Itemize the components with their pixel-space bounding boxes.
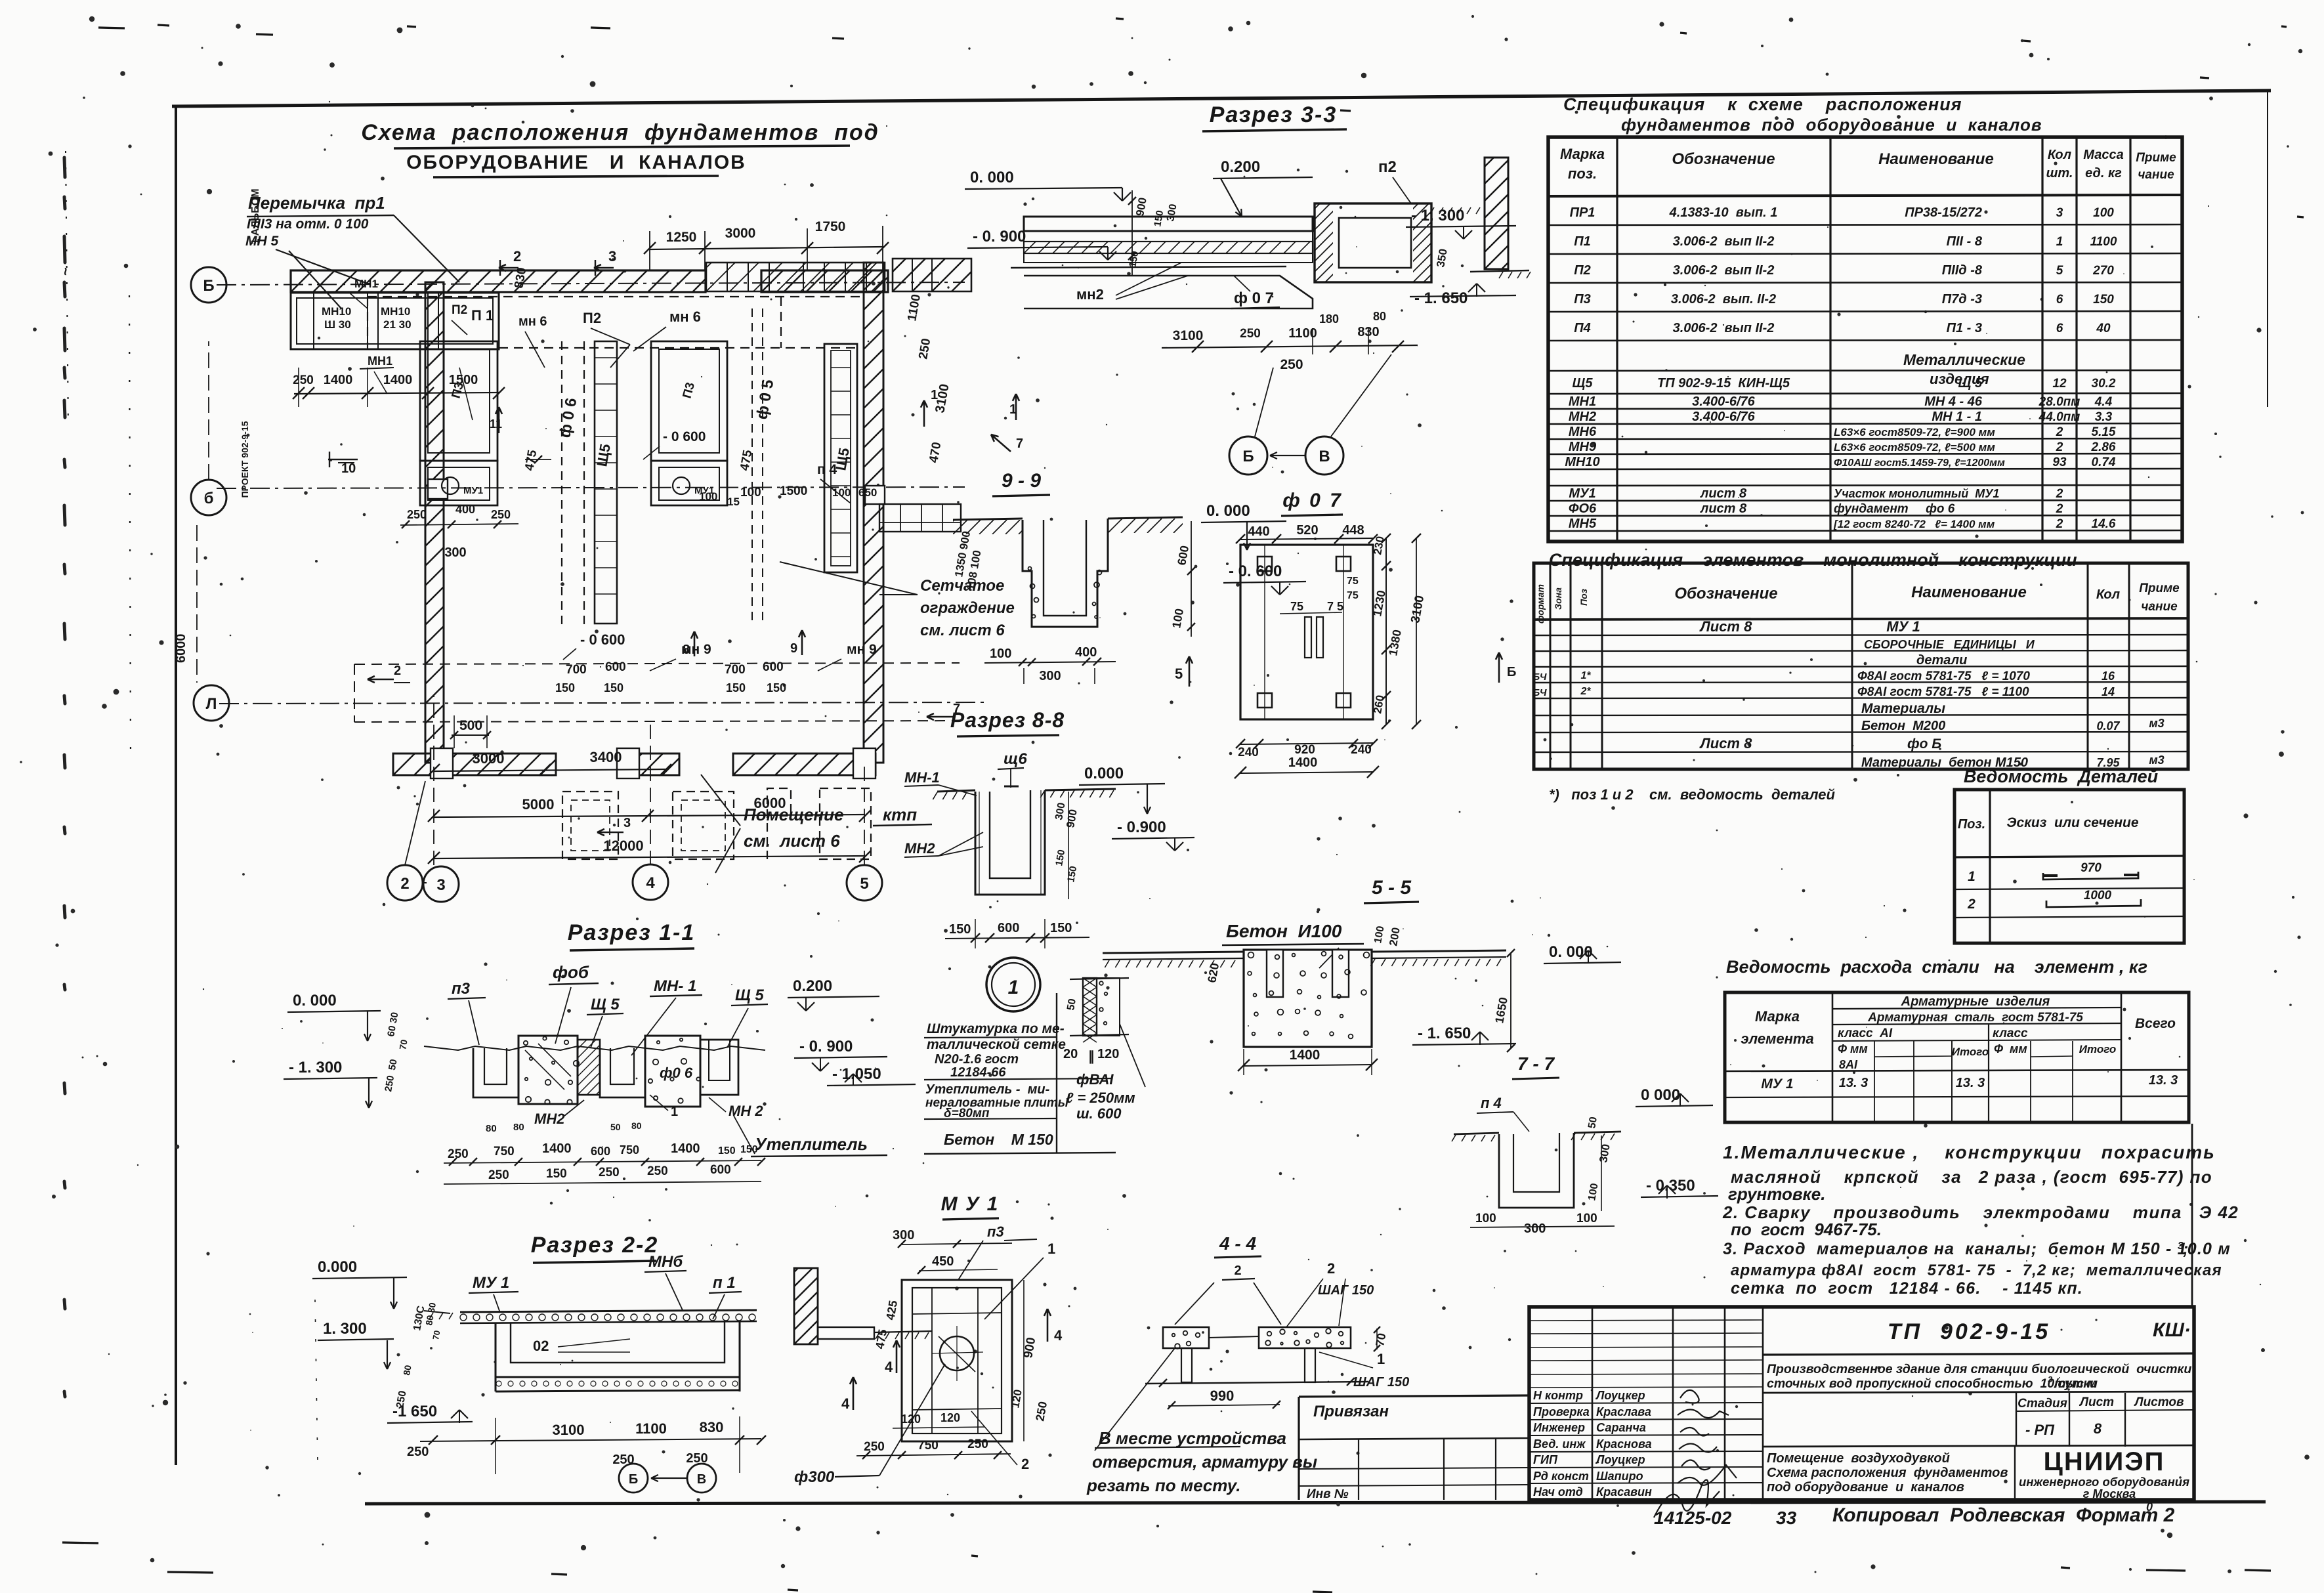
svg-text:1400: 1400 <box>324 373 353 387</box>
svg-text:Приме: Приме <box>2136 151 2176 165</box>
svg-text:МН 1 - 1: МН 1 - 1 <box>1932 410 1982 424</box>
svg-text:2: 2 <box>513 248 521 265</box>
svg-text:750: 750 <box>918 1439 939 1453</box>
plan: axis FO5 dashed channel <box>752 308 778 624</box>
svg-text:16: 16 <box>2102 669 2115 683</box>
svg-text:700: 700 <box>566 663 587 677</box>
title block subject and org <box>1767 1447 2189 1500</box>
svg-text:СБОРОЧНЫЕ ЕДИНИЦЫ И: СБОРОЧНЫЕ ЕДИНИЦЫ И <box>1864 638 2035 651</box>
svg-text:- 0 600: - 0 600 <box>663 429 706 444</box>
svg-text:0.07: 0.07 <box>2096 719 2120 733</box>
svg-text:0.000: 0.000 <box>1084 765 1124 782</box>
svg-text:250: 250 <box>491 508 511 521</box>
svg-text:ПIIд -8: ПIIд -8 <box>1942 263 1983 278</box>
svg-text:п2: п2 <box>1378 158 1397 176</box>
monolith spec table grid <box>1534 563 2188 769</box>
plate F07 bottom dims 240 920 240 1400 <box>1235 739 1379 778</box>
svg-text:3.400-6/76: 3.400-6/76 <box>1692 410 1756 424</box>
svg-text:600: 600 <box>710 1163 731 1177</box>
svg-text:250: 250 <box>916 337 933 360</box>
svg-text:класс АI: класс АI <box>1838 1027 1893 1040</box>
svg-text:Краснова: Краснова <box>1596 1437 1652 1451</box>
svg-text:3.3: 3.3 <box>2095 410 2113 424</box>
svg-text:1: 1 <box>1377 1351 1385 1367</box>
svg-text:ф 0 7: ф 0 7 <box>1234 289 1274 307</box>
svg-text:L63×6 гост8509-72, ℓ=900 мм: L63×6 гост8509-72, ℓ=900 мм <box>1834 426 1995 438</box>
svg-text:2: 2 <box>1234 1264 1241 1278</box>
svg-text:900: 900 <box>1133 196 1149 217</box>
svg-text:Ф мм: Ф мм <box>1994 1042 2027 1055</box>
specification table header text <box>1560 146 2176 182</box>
plan: axis circle L <box>174 525 229 721</box>
svg-text:9 - 9: 9 - 9 <box>1002 470 1041 492</box>
svg-text:30.2: 30.2 <box>2092 377 2116 391</box>
plan: lower long dashed lines <box>354 663 960 722</box>
detail fv8 labels <box>1063 1047 1135 1122</box>
plan: P3 box left with MU1 <box>420 341 497 505</box>
plan: dim 1250 3000 1750 top <box>644 219 889 270</box>
svg-text:1400: 1400 <box>1290 1048 1320 1063</box>
svg-text:П3: П3 <box>1574 292 1591 307</box>
svg-text:3000: 3000 <box>725 226 756 241</box>
svg-text:б: б <box>204 490 214 507</box>
section 8-8 levels right <box>1079 765 1194 851</box>
svg-text:Лоуцкер: Лоуцкер <box>1595 1453 1645 1466</box>
plate F07 top dims 440 520 448 <box>1236 523 1378 543</box>
svg-text:- 1. 650: - 1. 650 <box>1418 1025 1471 1042</box>
svg-text:300: 300 <box>1039 669 1061 683</box>
svg-text:щ6: щ6 <box>1004 750 1027 768</box>
notes text block <box>1722 1124 2239 1307</box>
plan: axis circle V <box>191 267 226 303</box>
svg-text:8: 8 <box>2094 1420 2102 1437</box>
svg-text:50: 50 <box>610 1122 621 1132</box>
section 5-5 bottom dim 1400 <box>1238 1048 1378 1075</box>
svg-text:6000: 6000 <box>754 795 786 811</box>
svg-text:фоб: фоб <box>553 962 589 982</box>
svg-text:см. лист 6: см. лист 6 <box>744 831 840 851</box>
section 1-1 foundation blocks <box>473 1036 738 1107</box>
svg-text:Участок монолитный МУ1: Участок монолитный МУ1 <box>1834 487 1999 500</box>
handwritten bottom notes <box>1654 1500 2175 1528</box>
main title line 2 <box>406 152 746 177</box>
svg-text:100: 100 <box>1576 1212 1597 1225</box>
svg-text:02: 02 <box>533 1338 549 1354</box>
svg-text:арматура ф8АI гост 5781- 75: арматура ф8АI гост 5781- 75 - 7,2 кг; ме… <box>1731 1262 2222 1279</box>
svg-text:1400: 1400 <box>671 1141 700 1156</box>
svg-text:Спецификация элементов м: Спецификация элементов монолитной констр… <box>1549 550 2077 570</box>
svg-text:1500: 1500 <box>780 484 807 498</box>
plan: MN1 small labels <box>348 278 394 394</box>
plan: dim row 5000 6000 <box>428 795 871 822</box>
svg-text:Обозначение: Обозначение <box>1674 585 1777 603</box>
svg-text:3: 3 <box>623 816 631 830</box>
svg-text:Схема расположения фундамент: Схема расположения фундаментов под <box>361 120 879 145</box>
section 8-8 vertical dims <box>1053 792 1080 899</box>
svg-text:МН2: МН2 <box>534 1111 565 1127</box>
svg-text:ПII - 8: ПII - 8 <box>1947 234 1983 249</box>
svg-text:300: 300 <box>444 545 466 560</box>
svg-text:2: 2 <box>2056 517 2063 531</box>
svg-text:1100: 1100 <box>1288 326 1317 341</box>
svg-text:Б: Б <box>1507 665 1516 679</box>
svg-text:1100: 1100 <box>635 1420 667 1437</box>
svg-text:3100: 3100 <box>553 1422 585 1438</box>
svg-text:250: 250 <box>864 1440 885 1454</box>
plan: dims 475 levels inside <box>400 429 755 560</box>
svg-text:600: 600 <box>591 1145 610 1158</box>
svg-text:0.74: 0.74 <box>2092 456 2116 469</box>
section 2-2 lower dims <box>387 1403 766 1474</box>
section 2-2 title <box>531 1233 659 1263</box>
svg-text:600: 600 <box>998 921 1019 935</box>
svg-text:Разрез 1-1: Разрез 1-1 <box>568 920 696 945</box>
svg-text:Металлические: Металлические <box>1903 351 2025 368</box>
svg-text:150: 150 <box>767 681 786 694</box>
svg-text:1: 1 <box>1968 869 1975 884</box>
svg-text:Красавин: Красавин <box>1596 1485 1652 1498</box>
svg-text:Стадия: Стадия <box>2018 1397 2067 1411</box>
section 2-2 channel drawing <box>424 1310 757 1391</box>
svg-text:6: 6 <box>2056 322 2063 335</box>
svg-text:10: 10 <box>341 461 356 476</box>
svg-text:Проверка: Проверка <box>1533 1405 1590 1418</box>
svg-text:80 30: 80 30 <box>423 1302 438 1326</box>
svg-text:2: 2 <box>2056 425 2063 439</box>
plan: lower dashed foundation squares <box>562 788 871 859</box>
svg-text:Разрез 8-8: Разрез 8-8 <box>950 708 1065 732</box>
svg-text:300: 300 <box>1165 203 1179 222</box>
svg-text:ПР1: ПР1 <box>1570 205 1595 220</box>
svg-text:21 30: 21 30 <box>383 318 412 331</box>
svg-text:8АI: 8АI <box>1839 1058 1858 1071</box>
svg-text:100: 100 <box>990 647 1011 661</box>
section 3-3 level 0.000 <box>965 169 1131 201</box>
svg-text:Итого: Итого <box>1952 1046 1989 1058</box>
svg-text:Схема расположения фундаменто: Схема расположения фундаментов <box>1767 1466 2008 1480</box>
section 1-1 right levels <box>788 977 916 1086</box>
svg-text:0 000: 0 000 <box>1641 1086 1680 1104</box>
svg-text:120: 120 <box>1097 1047 1119 1061</box>
svg-text:мн2: мн2 <box>1076 286 1104 303</box>
svg-text:лист 8: лист 8 <box>1700 486 1747 501</box>
svg-text:600: 600 <box>1175 545 1191 566</box>
svg-text:~: ~ <box>57 267 74 276</box>
plate F07 rectangle <box>1240 545 1373 719</box>
plan: room note pomeschenie ktp <box>669 775 932 880</box>
svg-text:Поз.: Поз. <box>1958 817 1985 832</box>
svg-text:- 0. 900: - 0. 900 <box>799 1038 853 1055</box>
svg-text:150: 150 <box>949 922 971 937</box>
main title line 1 <box>361 120 879 148</box>
plan: top wall band hatched <box>268 270 917 292</box>
svg-text:5 - 5: 5 - 5 <box>1372 877 1412 899</box>
svg-text:6000: 6000 <box>174 634 188 664</box>
svg-text:120: 120 <box>940 1411 960 1424</box>
svg-text:Марка: Марка <box>1755 1008 1800 1025</box>
svg-text:под оборудование и каналов: под оборудование и каналов <box>1767 1480 1964 1495</box>
svg-text:ограждение: ограждение <box>920 599 1015 617</box>
detail MU1 side dims <box>841 1280 1063 1441</box>
svg-text:МН5: МН5 <box>1569 517 1597 531</box>
svg-text:250: 250 <box>407 1445 429 1459</box>
svg-text:Перемычка пр1: Перемычка пр1 <box>248 193 385 213</box>
svg-text:МН 4 - 46: МН 4 - 46 <box>1924 394 1983 409</box>
left margin vertical text 1 albom <box>57 151 318 1464</box>
svg-text:МН2: МН2 <box>1569 410 1596 424</box>
section 3-3 label f07 <box>1231 276 1280 308</box>
svg-text:500: 500 <box>459 718 482 733</box>
svg-text:ТП 902-9-15 КИН-Щ5: ТП 902-9-15 КИН-Щ5 <box>1657 376 1790 391</box>
svg-text:МН- 1: МН- 1 <box>654 977 696 995</box>
svg-text:3000: 3000 <box>473 750 505 767</box>
svg-text:грунтовке.: грунтовке. <box>1728 1184 1825 1204</box>
monolith spec table rows <box>1532 618 2164 770</box>
svg-text:260: 260 <box>1371 694 1387 714</box>
vedomost detaley table <box>1954 790 2184 943</box>
svg-text:250: 250 <box>1240 327 1261 341</box>
svg-text:п 4: п 4 <box>1481 1095 1502 1111</box>
svg-text:мн 9: мн 9 <box>681 642 711 657</box>
svg-text:Сетчатое: Сетчатое <box>920 577 1004 595</box>
svg-text:МНб: МНб <box>648 1253 683 1271</box>
section 1-1 left levels <box>284 992 410 1108</box>
plan: top-right cells row MN <box>659 259 1024 291</box>
section 3-3 vertical dims 900 150 300 <box>1127 190 1179 276</box>
svg-text:детали: детали <box>1916 653 1967 668</box>
svg-text:м3: м3 <box>2149 754 2164 767</box>
svg-text:350: 350 <box>1434 247 1450 268</box>
svg-text:4.1383-10 вып. 1: 4.1383-10 вып. 1 <box>1669 205 1778 220</box>
svg-text:- РП: - РП <box>2025 1422 2055 1438</box>
svg-text:250: 250 <box>647 1164 668 1178</box>
svg-text:- 1.050: - 1.050 <box>832 1065 881 1083</box>
svg-text:МН9: МН9 <box>1569 440 1597 454</box>
svg-text:М У 1: М У 1 <box>941 1193 1000 1215</box>
svg-text:∥: ∥ <box>1088 1050 1095 1064</box>
svg-text:Утеплитель: Утеплитель <box>755 1134 868 1154</box>
svg-text:Зона: Зона <box>1553 587 1563 610</box>
svg-text:9: 9 <box>790 641 797 656</box>
section 1-1 ground line <box>424 1046 765 1050</box>
plan: dim row 12000 <box>428 838 871 864</box>
svg-text:93: 93 <box>2052 456 2067 469</box>
svg-text:Н контр: Н контр <box>1533 1389 1583 1402</box>
svg-text:100: 100 <box>2093 206 2114 220</box>
section 1-1 dim rows <box>444 1120 765 1184</box>
svg-text:Утеплитель - ми-: Утеплитель - ми- <box>925 1082 1050 1097</box>
svg-text:2: 2 <box>400 875 409 893</box>
svg-text:Нач отд: Нач отд <box>1533 1485 1583 1498</box>
svg-text:1100: 1100 <box>905 293 923 322</box>
svg-text:N20-1.6 гост: N20-1.6 гост <box>935 1052 1019 1067</box>
svg-text:ктп: ктп <box>883 805 917 824</box>
section 8-8 channel drawing <box>933 786 1116 895</box>
svg-text:300: 300 <box>893 1228 914 1243</box>
svg-text:резать по месту.: резать по месту. <box>1086 1476 1240 1495</box>
svg-text:П2: П2 <box>1574 263 1591 278</box>
svg-text:750: 750 <box>494 1145 515 1158</box>
svg-text:фундамент фо 6: фундамент фо 6 <box>1834 502 1955 516</box>
svg-text:620: 620 <box>1205 962 1221 984</box>
svg-text:600: 600 <box>605 660 626 674</box>
svg-text:2: 2 <box>2056 502 2063 516</box>
svg-text:Эскиз или сечение: Эскиз или сечение <box>2006 815 2138 830</box>
plan: fence note setchatoe <box>780 562 1015 639</box>
svg-text:Копировал Родлевская Формат: Копировал Родлевская Формат 2 <box>1832 1504 2175 1526</box>
svg-text:150: 150 <box>726 681 746 694</box>
svg-text:ШАГ 150: ШАГ 150 <box>1318 1283 1374 1298</box>
svg-text:мн 6: мн 6 <box>518 314 547 329</box>
svg-text:ЦНИИЭП: ЦНИИЭП <box>2044 1447 2165 1476</box>
svg-text:Бетон М200: Бетон М200 <box>1861 719 1945 733</box>
svg-text:П2: П2 <box>583 310 601 326</box>
svg-text:470: 470 <box>927 441 944 464</box>
svg-text:150: 150 <box>1152 209 1166 228</box>
svg-text:1*: 1* <box>1580 670 1591 681</box>
svg-text:П1 - 3: П1 - 3 <box>1947 321 1982 335</box>
svg-text:Щ 5: Щ 5 <box>735 987 764 1004</box>
title block left attachment part <box>1299 1395 1529 1501</box>
svg-text:Кол: Кол <box>2096 587 2121 602</box>
svg-text:ТП 902-9-15: ТП 902-9-15 <box>1888 1319 2050 1344</box>
svg-text:14.6: 14.6 <box>2092 517 2116 531</box>
svg-text:Рд конст: Рд конст <box>1533 1470 1589 1483</box>
svg-text:1400: 1400 <box>1288 755 1318 770</box>
svg-text:чание: чание <box>2138 168 2174 182</box>
section 7-7 dims <box>1470 1086 1718 1236</box>
detail 4-4 note text <box>1086 1348 1317 1495</box>
plan: dim row 250 1400 1400 1500 <box>293 368 505 407</box>
svg-text:100: 100 <box>1372 925 1386 944</box>
svg-text:1. 300: 1. 300 <box>323 1320 367 1338</box>
svg-text:Итого: Итого <box>2079 1043 2117 1055</box>
section 3-3 channel box <box>1231 203 1513 282</box>
svg-text:600: 600 <box>763 660 784 674</box>
plan: note perimychka pr1 <box>245 193 459 308</box>
svg-text:1000: 1000 <box>2084 889 2112 903</box>
svg-text:чание: чание <box>2141 600 2178 614</box>
svg-text:13. 3: 13. 3 <box>2149 1073 2178 1088</box>
plan: upper-left cell block MN10 <box>291 293 499 349</box>
svg-text:3. Расход материалов на кана: 3. Расход материалов на каналы; бетон М … <box>1723 1240 2231 1258</box>
svg-text:7 5: 7 5 <box>1327 600 1343 613</box>
svg-text:ℓ = 250мм: ℓ = 250мм <box>1066 1090 1135 1106</box>
svg-text:отверстия, арматуру вы: отверстия, арматуру вы <box>1092 1452 1317 1472</box>
svg-text:70: 70 <box>431 1330 442 1341</box>
svg-text:П7д -3: П7д -3 <box>1942 292 1982 307</box>
section 3-3 level -0.900 <box>967 228 1116 260</box>
svg-text:Ф8АI гост 5781-75 ℓ = 1070: Ф8АI гост 5781-75 ℓ = 1070 <box>1857 669 2030 683</box>
plan: tall Sch5 channel right <box>824 344 857 572</box>
svg-text:6: 6 <box>2056 293 2063 307</box>
svg-text:ПР38-15/272: ПР38-15/272 <box>1905 205 1982 220</box>
svg-text:900: 900 <box>1064 808 1080 828</box>
svg-text:Инженер: Инженер <box>1533 1421 1585 1434</box>
svg-text:Арматурная сталь гост 5781-7: Арматурная сталь гост 5781-75 <box>1867 1011 2083 1025</box>
svg-text:1: 1 <box>1047 1241 1055 1257</box>
svg-text:- 1. 300: - 1. 300 <box>289 1059 342 1076</box>
svg-text:425: 425 <box>883 1300 900 1321</box>
svg-text:15: 15 <box>727 496 740 508</box>
svg-text:;: ; <box>2183 1240 2188 1258</box>
svg-text:МН6: МН6 <box>1569 425 1597 439</box>
svg-text:Разрез 3-3: Разрез 3-3 <box>1210 102 1338 127</box>
svg-text:- 0.350: - 0.350 <box>1646 1177 1695 1195</box>
svg-text:МН 5: МН 5 <box>245 234 278 249</box>
svg-text:3: 3 <box>2048 1374 2053 1384</box>
detail MU1 f300 and bottom dims <box>794 1364 1029 1486</box>
svg-text:МН10: МН10 <box>322 305 351 318</box>
svg-text:1: 1 <box>1008 977 1019 998</box>
plate F07 mid dims 75 <box>1280 576 1359 614</box>
svg-text:830: 830 <box>700 1419 724 1435</box>
svg-text:80: 80 <box>513 1122 524 1133</box>
svg-text:МН2: МН2 <box>904 840 935 857</box>
svg-text:Всего: Всего <box>2135 1016 2176 1031</box>
svg-text:ГИП: ГИП <box>1533 1453 1558 1466</box>
detail wall layers <box>1065 978 1145 1087</box>
svg-text:В месте устройства: В месте устройства <box>1099 1428 1286 1448</box>
title block outer <box>1529 1307 2194 1500</box>
svg-text:11: 11 <box>490 417 502 431</box>
plan: channel Sch5 left <box>593 341 617 624</box>
svg-text:фо Б: фо Б <box>1907 736 1941 752</box>
svg-text:Саранча: Саранча <box>1596 1421 1646 1434</box>
svg-text:80: 80 <box>631 1120 642 1131</box>
svg-text:Щ 5: Щ 5 <box>591 996 620 1013</box>
section 9-9 trench drawing <box>927 517 1201 627</box>
svg-text:Обозначение: Обозначение <box>1672 150 1775 168</box>
plan: axis circle B <box>191 341 226 515</box>
section 8-8 bottom dims <box>945 919 1089 948</box>
svg-text:МУ1: МУ1 <box>1569 486 1595 501</box>
svg-text:250: 250 <box>967 1437 988 1451</box>
svg-text:МУ1: МУ1 <box>463 485 483 496</box>
svg-text:МУ 1: МУ 1 <box>1886 618 1920 635</box>
svg-text:Шапиро: Шапиро <box>1596 1470 1643 1483</box>
svg-text:0. 000: 0. 000 <box>970 169 1014 186</box>
svg-text:лист 8: лист 8 <box>1700 501 1747 516</box>
section 9-9 bottom dims <box>984 645 1116 684</box>
section 5-5 beton note <box>1222 921 1364 968</box>
section 1-1 labels above <box>448 962 768 1055</box>
svg-text:250: 250 <box>488 1168 509 1182</box>
vedomost detaley sketches <box>2043 861 2141 907</box>
plaster note box <box>924 993 1116 1154</box>
section 3-3 dims 180 80 <box>1313 310 1386 354</box>
svg-text:м3: м3 <box>2149 717 2164 730</box>
svg-text:4: 4 <box>885 1359 893 1375</box>
svg-text:1250: 1250 <box>666 230 697 245</box>
svg-text:п3: п3 <box>987 1223 1004 1240</box>
svg-text:240: 240 <box>1238 746 1259 759</box>
svg-text:70: 70 <box>1373 1332 1388 1347</box>
section 5-5 title <box>1364 877 1419 903</box>
svg-text:Привязан: Привязан <box>1313 1403 1389 1420</box>
plan: upper foundation dashed zone <box>368 297 861 368</box>
svg-text:4: 4 <box>1054 1327 1063 1344</box>
svg-text:100: 100 <box>1475 1212 1496 1225</box>
section 5-5 dims <box>1205 925 1621 1052</box>
svg-text:мн 9: мн 9 <box>847 642 877 657</box>
svg-text:ед. кг: ед. кг <box>2085 166 2122 181</box>
plate F07 title <box>1281 490 1343 516</box>
svg-text:1100: 1100 <box>2090 235 2117 249</box>
svg-text:г Москва: г Москва <box>2083 1487 2136 1500</box>
svg-text:п3: п3 <box>452 980 471 998</box>
plate F07 right dim chain <box>1370 534 1427 729</box>
